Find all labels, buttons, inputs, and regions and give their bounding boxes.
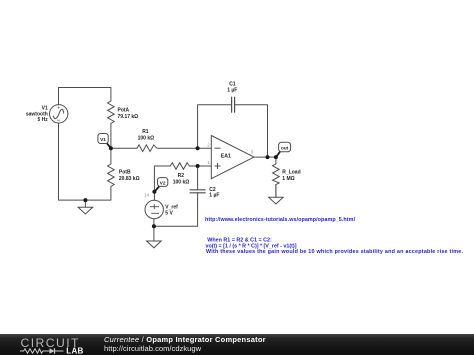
logo diode (46, 348, 64, 354)
label R2 (173, 173, 190, 185)
svg-text:100 kΩ: 100 kΩ (138, 136, 155, 142)
label PotA (118, 107, 139, 120)
ground (bottom-left rail) (78, 200, 93, 214)
wire node V1 to R1 (111, 147, 137, 149)
svg-text:1 MΩ: 1 MΩ (282, 176, 294, 182)
svg-text:PotB: PotB (119, 169, 131, 175)
junction V2 anchor (152, 190, 156, 194)
label C2 (209, 187, 219, 199)
junction ground rail (83, 198, 87, 202)
junction C2 / R2 (196, 164, 200, 168)
label V_ref (165, 205, 178, 217)
resistor R_Load (273, 164, 280, 185)
svg-text:14: 14 (144, 193, 150, 198)
wire C2 top (197, 166, 199, 190)
ground (under V_ref) (147, 226, 162, 248)
svg-text:LAB: LAB (66, 347, 83, 355)
wire V_ref top to R2 (154, 166, 170, 200)
label PotB (119, 169, 140, 182)
label R_Load (282, 170, 300, 182)
capacitor C2 (190, 190, 206, 193)
voltage source V1 (50, 105, 68, 123)
svg-text:1 µF: 1 µF (209, 193, 219, 199)
resistor R2 (170, 163, 189, 170)
wire op-amp output (254, 156, 276, 158)
wire output to R_Load (275, 157, 277, 164)
node tag V2 (154, 178, 167, 192)
svg-text:Currentee / Opamp Integrator C: Currentee / Opamp Integrator Compensator (104, 335, 266, 344)
svg-text:5 Hz: 5 Hz (38, 117, 49, 123)
ground (under R_Load) (269, 185, 284, 204)
resistor PotB (108, 164, 115, 187)
svg-text:R2: R2 (178, 173, 185, 179)
junction V_ref bottom (152, 224, 156, 228)
resistor PotA (108, 101, 115, 124)
junction output / C1 (266, 155, 270, 159)
label R1 (138, 129, 155, 142)
svg-text:5 V: 5 V (165, 210, 173, 216)
svg-text:1 µF: 1 µF (227, 87, 237, 93)
wire PotA bottom to node V1 (110, 124, 112, 149)
svg-text:V2: V2 (160, 181, 166, 187)
voltage source V_ref (145, 200, 163, 218)
label V1 source (26, 106, 48, 123)
svg-text:http://circuitlab.com/cdzkugw: http://circuitlab.com/cdzkugw (104, 344, 202, 353)
wire R2 to op-amp non-inverting input (189, 165, 211, 167)
label C1 (227, 82, 237, 94)
svg-text:79.17 kΩ: 79.17 kΩ (118, 114, 139, 120)
svg-text:out: out (281, 145, 289, 150)
wire feedback left branch (198, 105, 232, 149)
node tag V1 (98, 134, 111, 149)
wire V1 bottom to ground rail (59, 123, 111, 200)
wire R1 to op-amp inverting input (157, 147, 211, 149)
wire node V1 to PotB top (110, 148, 112, 164)
capacitor C1 (232, 97, 235, 113)
svg-text:20.83 kΩ: 20.83 kΩ (119, 176, 140, 182)
junction feedback / R1 (196, 146, 200, 150)
svg-text:R1: R1 (142, 129, 149, 135)
junction out anchor (274, 155, 278, 159)
svg-text:With these values the gain wou: With these values the gain would be 10 w… (206, 249, 464, 255)
svg-text:V1: V1 (100, 137, 106, 143)
op-amp EA1 (211, 136, 254, 179)
svg-text:R_Load: R_Load (282, 170, 300, 176)
wire R_Load to ground (275, 185, 277, 198)
junction node V1 (109, 146, 113, 150)
node tag out (276, 142, 291, 157)
wire feedback right branch (235, 105, 268, 157)
wire V_ref bottom (153, 219, 155, 227)
svg-text:100 kΩ: 100 kΩ (173, 179, 190, 185)
wire V1 top to PotA top (59, 88, 111, 105)
svg-text:PotA: PotA (118, 107, 130, 113)
resistor R1 (137, 145, 157, 152)
svg-text:http://www.electronics-tutoria: http://www.electronics-tutorials.ws/opam… (205, 217, 356, 223)
logo resistor squiggle (20, 349, 46, 353)
svg-text:EA1: EA1 (221, 154, 231, 160)
wire C2 bottom to ground rail (154, 193, 198, 226)
